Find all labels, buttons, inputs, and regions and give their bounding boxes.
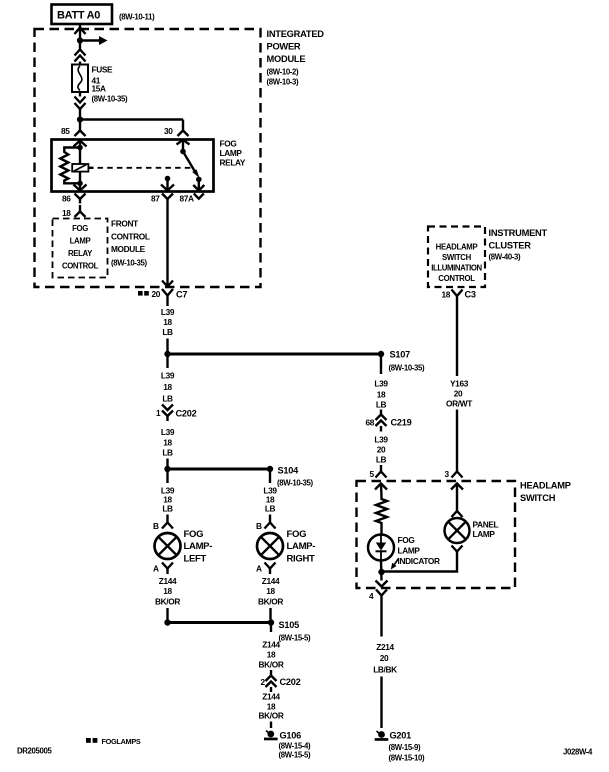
fog lamp left pin A connector <box>153 563 173 575</box>
ground G106 <box>264 731 311 760</box>
svg-text:Z144: Z144 <box>262 576 280 586</box>
svg-text:(8W-10-35): (8W-10-35) <box>277 479 314 488</box>
svg-text:LB: LB <box>162 327 173 337</box>
svg-text:Z214: Z214 <box>376 642 394 652</box>
relay terminal 85 <box>74 141 87 151</box>
svg-text:B: B <box>153 521 159 531</box>
relay terminal 30 <box>177 140 190 155</box>
resistor in headlamp switch <box>376 497 387 535</box>
svg-text:LAMP: LAMP <box>398 546 421 556</box>
svg-text:(8W-10-35): (8W-10-35) <box>111 259 148 268</box>
svg-text:1: 1 <box>156 408 161 418</box>
svg-text:PANEL: PANEL <box>473 520 499 530</box>
wire indicator to junction <box>380 561 383 581</box>
svg-text:FOG: FOG <box>220 139 237 149</box>
svg-text:20: 20 <box>377 445 386 455</box>
svg-text:S105: S105 <box>279 620 300 630</box>
svg-text:30: 30 <box>164 126 173 136</box>
svg-text:INDICATOR: INDICATOR <box>398 556 441 566</box>
connector C3 pin 18 <box>442 290 476 302</box>
svg-text:FOG: FOG <box>398 535 415 545</box>
relay K: fog lamp relay box <box>52 139 246 192</box>
pin 4 connector below headlamp switch <box>369 590 387 602</box>
svg-text:87: 87 <box>151 194 160 204</box>
fog lamp right pin B connector <box>256 515 276 532</box>
splice S104 <box>267 466 314 488</box>
svg-text:CLUSTER: CLUSTER <box>489 241 532 251</box>
svg-text:Z144: Z144 <box>262 640 280 650</box>
svg-text:L39: L39 <box>374 379 388 389</box>
svg-text:20: 20 <box>380 653 389 663</box>
svg-text:RELAY: RELAY <box>220 158 246 168</box>
svg-text:3: 3 <box>445 469 450 479</box>
wire label L39 18 LB <box>161 302 175 352</box>
svg-text:(8W-10-35): (8W-10-35) <box>92 95 129 104</box>
svg-text:C219: C219 <box>391 418 412 428</box>
svg-text:L39: L39 <box>161 427 175 437</box>
ground G201 <box>375 731 425 763</box>
wire bus to relay pin 30 <box>80 120 189 137</box>
connector C219 pin 68 <box>366 410 412 432</box>
svg-text:LAMP: LAMP <box>70 237 91 246</box>
svg-text:G106: G106 <box>280 731 302 741</box>
wire label Z144 18 BK/OR below C202 <box>259 692 284 729</box>
indicator pointer arrow <box>391 559 399 570</box>
relay switch arm <box>183 152 202 183</box>
pin 5 connector into headlamp switch <box>370 465 387 479</box>
svg-text:18: 18 <box>266 586 275 596</box>
svg-text:HEADLAMP: HEADLAMP <box>520 481 571 491</box>
wire down to pin 3 <box>456 410 458 466</box>
splice S105 <box>268 619 311 642</box>
svg-text:LB: LB <box>265 504 276 514</box>
integrated power module box <box>35 29 325 287</box>
svg-text:OR/WT: OR/WT <box>446 399 472 409</box>
svg-text:LB: LB <box>162 504 173 514</box>
svg-text:(8W-15-10): (8W-15-10) <box>389 754 426 763</box>
svg-text:LAMP: LAMP <box>220 148 243 158</box>
lamp: panel lamp <box>445 518 499 543</box>
LED fog lamp indicator <box>368 535 440 567</box>
lamp: fog lamp left <box>155 529 213 565</box>
svg-text:FOGLAMPS: FOGLAMPS <box>102 737 141 746</box>
wire to S105 <box>168 621 272 624</box>
svg-text:BATT A0: BATT A0 <box>57 10 100 22</box>
wire junction to panel lamp branch <box>382 557 458 572</box>
wire C3 down <box>456 302 458 377</box>
relay coil box <box>72 148 88 184</box>
svg-text:BK/OR: BK/OR <box>155 597 180 607</box>
connector C202 pin 2 <box>261 670 301 692</box>
relay terminal 87A <box>193 179 204 190</box>
svg-text:(8W-15-4): (8W-15-4) <box>279 742 312 751</box>
svg-text:LB/BK: LB/BK <box>373 665 397 675</box>
right lamp wire label L39 18 LB <box>263 472 277 514</box>
switch terminal 3 <box>451 484 463 518</box>
svg-text:RIGHT: RIGHT <box>287 554 316 565</box>
svg-text:18: 18 <box>163 438 172 448</box>
svg-text:FRONT: FRONT <box>111 219 138 229</box>
svg-text:A: A <box>256 564 262 574</box>
svg-text:(8W-10-3): (8W-10-3) <box>267 78 300 87</box>
feed arrow to other circuits <box>80 36 108 45</box>
svg-text:LB: LB <box>376 455 387 465</box>
svg-text:S107: S107 <box>390 350 411 360</box>
wire to S104 <box>168 468 271 471</box>
svg-text:BK/OR: BK/OR <box>258 597 283 607</box>
wire label Y163 20 OR/WT <box>446 379 472 409</box>
svg-text:C202: C202 <box>176 409 197 419</box>
wire S107 down right branch <box>374 357 388 410</box>
wire label Z214 20 LB/BK <box>373 642 397 675</box>
svg-text:MODULE: MODULE <box>111 244 146 254</box>
svg-text:2: 2 <box>261 677 266 687</box>
svg-text:LB: LB <box>376 400 387 410</box>
connector C202 pin 1 <box>156 405 197 422</box>
svg-text:(8W-10-2): (8W-10-2) <box>267 68 300 77</box>
switch terminal 4 exit <box>376 581 388 587</box>
relay dashed actuation link <box>89 167 194 169</box>
fog lamp left pin B connector <box>153 515 173 532</box>
svg-text:18: 18 <box>267 650 276 660</box>
svg-text:FOG: FOG <box>287 529 307 540</box>
svg-text:RELAY: RELAY <box>68 249 93 258</box>
svg-text:(8W-15-5): (8W-15-5) <box>279 634 312 643</box>
svg-text:L39: L39 <box>161 307 175 317</box>
relay terminal 87 <box>161 176 174 191</box>
svg-text:MODULE: MODULE <box>267 54 306 64</box>
wire label Z144 18 BK/OR left <box>155 576 180 620</box>
battery feed BATT A0 box <box>52 5 156 25</box>
svg-text:POWER: POWER <box>267 42 301 52</box>
fuse F41 15A <box>72 65 128 104</box>
svg-text:LB: LB <box>162 448 173 458</box>
svg-text:B: B <box>256 521 262 531</box>
relay coil resistor <box>60 148 80 184</box>
panel lamp bottom connector <box>452 546 463 557</box>
svg-text:18: 18 <box>377 390 386 400</box>
svg-text:20: 20 <box>454 389 463 399</box>
svg-text:SWITCH: SWITCH <box>442 253 472 262</box>
fog lamp right pin A connector <box>256 563 276 575</box>
in-line connector chevrons below fuse <box>75 92 86 117</box>
svg-text:85: 85 <box>61 126 70 136</box>
front control module: fog lamp relay control box <box>53 219 150 278</box>
wire down to G201 <box>380 677 382 729</box>
splice S107 <box>378 350 425 373</box>
svg-text:87A: 87A <box>180 194 195 204</box>
svg-text:HEADLAMP: HEADLAMP <box>436 243 478 252</box>
svg-text:INSTRUMENT: INSTRUMENT <box>489 228 548 238</box>
wire down from pin 4 <box>380 601 382 637</box>
node S104 junction <box>164 466 170 472</box>
svg-text:18: 18 <box>163 317 172 327</box>
svg-text:BK/OR: BK/OR <box>259 660 284 670</box>
svg-text:CONTROL: CONTROL <box>62 262 99 271</box>
svg-text:Z144: Z144 <box>159 576 177 586</box>
node S105 junction <box>164 619 170 625</box>
svg-text:Y163: Y163 <box>450 379 469 389</box>
svg-text:CONTROL: CONTROL <box>438 274 475 283</box>
svg-text:LAMP-: LAMP- <box>287 541 316 552</box>
lamp: fog lamp right <box>257 529 315 565</box>
instrument cluster box <box>428 227 548 288</box>
svg-text:5: 5 <box>370 469 375 479</box>
svg-text:INTEGRATED: INTEGRATED <box>267 29 325 39</box>
svg-text:18: 18 <box>163 382 172 392</box>
svg-text:J028W-4: J028W-4 <box>563 748 593 757</box>
connector C7 <box>138 289 187 302</box>
svg-text:S104: S104 <box>278 466 300 476</box>
svg-text:86: 86 <box>62 194 71 204</box>
pin 86 connector below relay <box>62 194 86 204</box>
svg-text:L39: L39 <box>161 371 175 381</box>
node indicator junction <box>378 569 384 575</box>
pin 87A connector below relay <box>180 194 204 204</box>
svg-text:(8W-10-11): (8W-10-11) <box>119 13 155 22</box>
in-line connector chevrons above fuse <box>75 50 86 65</box>
wire to relay pin 85 <box>75 120 86 137</box>
svg-text:Z144: Z144 <box>262 692 280 702</box>
wire 87 down to IPM exit <box>162 205 173 287</box>
wire batt to junction <box>75 24 86 50</box>
svg-text:DR205005: DR205005 <box>17 747 52 756</box>
wire label Z144 18 BK/OR below S105 <box>259 626 284 670</box>
pin 3 connector into headlamp switch <box>445 465 463 479</box>
svg-text:FOG: FOG <box>72 224 88 233</box>
svg-text:18: 18 <box>163 586 172 596</box>
svg-text:A: A <box>153 564 159 574</box>
svg-text:(8W-10-35): (8W-10-35) <box>389 364 426 373</box>
svg-text:SWITCH: SWITCH <box>520 493 556 503</box>
headlamp switch box <box>357 481 571 589</box>
svg-text:68: 68 <box>366 418 375 428</box>
svg-text:18: 18 <box>442 290 451 300</box>
pin 18 connector into front control module <box>62 205 86 218</box>
svg-text:BK/OR: BK/OR <box>259 711 284 721</box>
legend foglamps <box>86 737 141 746</box>
wire label L39 18 LB below C202 <box>161 427 175 466</box>
svg-text:LAMP-: LAMP- <box>184 541 213 552</box>
svg-text:CONTROL: CONTROL <box>111 232 150 242</box>
left lamp wire label L39 18 LB <box>161 472 175 514</box>
svg-text:(8W-15-9): (8W-15-9) <box>389 743 422 752</box>
svg-text:L39: L39 <box>374 435 388 445</box>
svg-text:ILLUMINATION: ILLUMINATION <box>431 264 482 273</box>
node S107 junction <box>164 351 170 357</box>
svg-text:G201: G201 <box>390 731 412 741</box>
svg-text:C7: C7 <box>176 290 187 300</box>
node fuse output junction <box>77 116 83 122</box>
svg-text:LEFT: LEFT <box>184 554 207 565</box>
pin 87 connector below relay <box>151 194 173 206</box>
node battery junction <box>77 37 83 43</box>
svg-text:20: 20 <box>152 289 161 299</box>
svg-text:15A: 15A <box>92 84 107 94</box>
switch terminal 5 <box>375 484 387 498</box>
relay terminal 86 <box>74 181 87 191</box>
wire label L39 20 LB <box>374 435 388 465</box>
wire label L39 18 LB below junction <box>161 357 175 404</box>
wire to S107 <box>168 353 382 356</box>
svg-text:(8W-15-5): (8W-15-5) <box>279 751 312 760</box>
svg-text:(8W-40-3): (8W-40-3) <box>489 253 522 262</box>
svg-text:C3: C3 <box>465 290 476 300</box>
svg-text:4: 4 <box>369 591 374 601</box>
svg-text:C202: C202 <box>280 677 301 687</box>
svg-text:LB: LB <box>162 394 173 404</box>
svg-text:FOG: FOG <box>184 529 204 540</box>
svg-text:FUSE: FUSE <box>92 65 114 75</box>
wire label Z144 18 BK/OR right <box>258 576 283 620</box>
svg-text:LAMP: LAMP <box>473 529 496 539</box>
svg-text:18: 18 <box>62 208 71 218</box>
